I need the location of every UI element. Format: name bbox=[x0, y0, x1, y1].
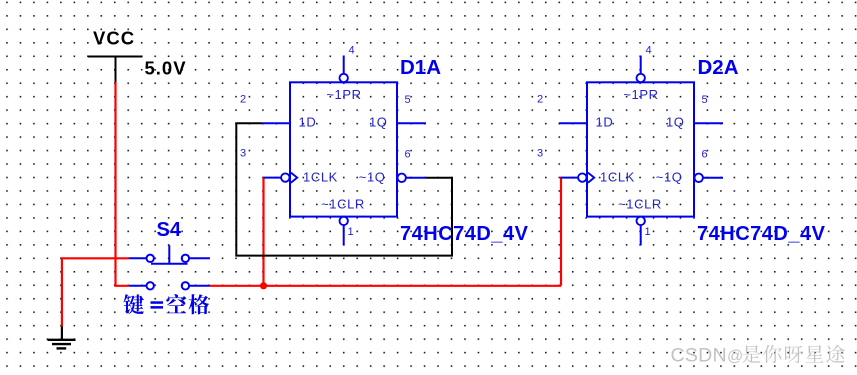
svg-text:1: 1 bbox=[348, 226, 354, 238]
ground bbox=[48, 327, 76, 349]
svg-text:1D: 1D bbox=[299, 115, 317, 130]
svg-text:1Q: 1Q bbox=[369, 115, 388, 130]
wire switch top row to ground bbox=[62, 258, 129, 326]
svg-text:2: 2 bbox=[240, 94, 246, 106]
svg-text:~1PR: ~1PR bbox=[326, 87, 361, 102]
pin 6 ~1Q bubble and stub bbox=[695, 174, 724, 182]
svg-text:5: 5 bbox=[405, 94, 411, 106]
pin 3 CLK bubble and stub bbox=[561, 173, 595, 183]
svg-text:1D: 1D bbox=[596, 115, 614, 130]
svg-text:D2A: D2A bbox=[698, 56, 739, 79]
svg-text:6: 6 bbox=[702, 149, 708, 161]
pin 3 CLK bubble and stub bbox=[264, 173, 298, 183]
svg-text:D1A: D1A bbox=[400, 56, 441, 79]
svg-text:~1CLR: ~1CLR bbox=[321, 197, 365, 212]
wire branch to D2A clock bbox=[560, 177, 562, 286]
wire feedback ~1Q to 1D of D1A bbox=[236, 123, 452, 255]
svg-text:6: 6 bbox=[405, 149, 411, 161]
svg-text:1CLK: 1CLK bbox=[600, 170, 635, 185]
svg-text:~1CLR: ~1CLR bbox=[618, 197, 662, 212]
wire switch output bus bbox=[210, 285, 561, 287]
watermark CSDN bbox=[671, 345, 845, 367]
svg-text:1Q: 1Q bbox=[666, 115, 685, 130]
switch S4 bbox=[129, 245, 210, 289]
svg-text:@: @ bbox=[727, 348, 743, 365]
pin 4 ~1PR top bubble and stub bbox=[340, 56, 348, 83]
pin 1 ~1CLR bottom bubble and stub bbox=[637, 217, 645, 246]
D flip-flop D1A (74HC74D_4V) box bbox=[290, 82, 397, 216]
pin 4 ~1PR top bubble and stub bbox=[637, 56, 645, 83]
svg-text:5.0V: 5.0V bbox=[145, 58, 187, 79]
label key = space bbox=[124, 294, 210, 314]
junction bbox=[260, 282, 267, 289]
svg-text:~1PR: ~1PR bbox=[623, 87, 658, 102]
svg-text:3: 3 bbox=[240, 148, 246, 160]
svg-text:~1Q: ~1Q bbox=[656, 170, 683, 185]
svg-text:3: 3 bbox=[537, 148, 543, 160]
svg-text:4: 4 bbox=[646, 45, 652, 57]
pin 5 1Q stub bbox=[694, 122, 723, 124]
svg-text:4: 4 bbox=[349, 45, 355, 57]
svg-text:74HC74D_4V: 74HC74D_4V bbox=[400, 223, 529, 245]
svg-text:74HC74D_4V: 74HC74D_4V bbox=[697, 223, 826, 245]
svg-text:1: 1 bbox=[645, 226, 651, 238]
wire VCC down to switch bottom row bbox=[116, 82, 129, 286]
wire branch to D1A clock bbox=[262, 177, 264, 286]
pin 5 1Q stub bbox=[397, 122, 426, 124]
pin 2 1D stub bbox=[262, 122, 290, 124]
svg-text:~1Q: ~1Q bbox=[359, 170, 386, 185]
D flip-flop D2A (74HC74D_4V) box bbox=[587, 82, 694, 216]
pin 2 1D stub bbox=[559, 122, 587, 124]
svg-text:CSDN: CSDN bbox=[671, 345, 727, 367]
svg-text:5: 5 bbox=[702, 94, 708, 106]
svg-text:2: 2 bbox=[537, 94, 543, 106]
power VCC bbox=[88, 28, 143, 83]
pin 6 ~1Q bubble and stub bbox=[398, 174, 427, 182]
svg-text:VCC: VCC bbox=[93, 28, 135, 49]
svg-text:1CLK: 1CLK bbox=[303, 170, 338, 185]
pin 1 ~1CLR bottom bubble and stub bbox=[340, 217, 348, 246]
svg-text:S4: S4 bbox=[157, 219, 182, 241]
